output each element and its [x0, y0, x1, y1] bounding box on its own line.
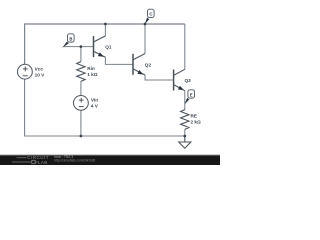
wire Rin top: [80, 47, 82, 62]
node flag C: [145, 9, 154, 24]
svg-text:C: C: [149, 12, 152, 17]
svg-text:10 V: 10 V: [35, 73, 46, 78]
ground: [179, 136, 191, 148]
resistor Rin: [77, 62, 85, 82]
label RE 2 kΩ: [191, 113, 202, 124]
node flag B: [62, 34, 74, 48]
transistor Q1: [94, 36, 106, 57]
wire top rail: [25, 24, 185, 64]
svg-text:Vin: Vin: [91, 98, 98, 103]
wire RE bottom: [184, 129, 186, 136]
junction dot Rin on Q1 base wire: [80, 45, 83, 48]
label Rin 1 kΩ: [87, 66, 98, 77]
svg-text:1 kΩ: 1 kΩ: [87, 72, 98, 77]
label Q3: [185, 78, 192, 83]
footer text: [54, 155, 95, 162]
wire Q1 collector to rail: [104, 24, 106, 36]
wire Vin bottom: [80, 110, 82, 136]
wire bottom rail: [25, 79, 185, 136]
svg-text:LAB: LAB: [38, 160, 48, 165]
wire Rin bottom to Vin: [80, 81, 82, 95]
svg-text:4 V: 4 V: [91, 104, 99, 109]
resistor RE: [181, 110, 189, 130]
wire Q1 base: [64, 46, 94, 48]
wire Q3 emitter to RE: [184, 91, 186, 110]
node flag E: [184, 90, 194, 105]
wire Q1 emitter to Q2 base: [105, 57, 133, 64]
voltage source V2 Vin: [74, 96, 89, 111]
svg-text:Q2: Q2: [145, 63, 152, 68]
svg-text:E: E: [190, 92, 193, 97]
label Q2: [145, 63, 152, 68]
svg-text:RE: RE: [191, 113, 198, 118]
svg-text:B: B: [69, 36, 72, 41]
transistor Q3: [174, 69, 185, 90]
transistor Q2: [133, 54, 145, 75]
label Vin 4 V: [91, 98, 99, 109]
footer hairline: [0, 154, 220, 155]
svg-text:2 kΩ: 2 kΩ: [191, 119, 202, 124]
junction dot RE/ground on bottom rail: [183, 135, 186, 138]
svg-text:Rin: Rin: [87, 66, 95, 71]
CircuitLab logo: [12, 155, 49, 165]
junction dot Q1 collector on rail: [104, 23, 107, 26]
wire Q2 emitter to Q3 base: [145, 75, 174, 80]
voltage source V1 Vcc: [18, 64, 33, 79]
svg-text:Q3: Q3: [185, 78, 192, 83]
label Vcc 10 V: [35, 67, 46, 78]
footer watermark bar: [0, 155, 220, 165]
wire Q3 collector to rail: [184, 24, 186, 69]
junction dot Q2 collector on rail / node C: [144, 23, 147, 26]
wire Q2 collector to rail: [144, 24, 146, 54]
svg-text:Vcc: Vcc: [35, 67, 44, 72]
svg-text:Q1: Q1: [105, 45, 112, 50]
junction dot Vin on bottom rail: [80, 135, 83, 138]
label Q1: [105, 45, 112, 50]
svg-text:http:⁄⁄circuitlab.com⁄chk7uf6: http:⁄⁄circuitlab.com⁄chk7uf6: [54, 158, 95, 162]
